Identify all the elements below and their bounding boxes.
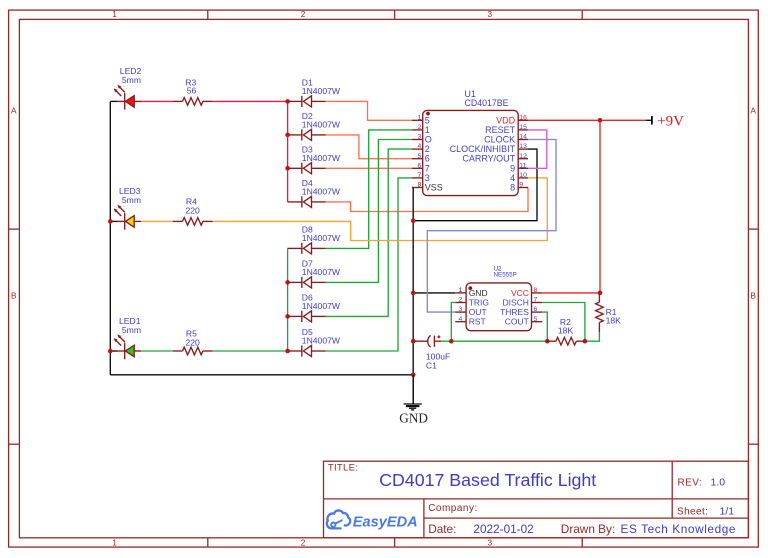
border row ticks left: [9, 229, 20, 444]
wire LED3 cathode to left rail: [110, 220, 117, 222]
wire LED1 cathode to left rail: [110, 350, 117, 352]
svg-text:1N4007W: 1N4007W: [302, 233, 341, 243]
U1 reference label: [465, 89, 509, 108]
resistor R2 18K: [546, 337, 586, 345]
svg-text:220: 220: [186, 337, 201, 347]
wire bottom green net TRIG to THRES junction: [451, 340, 547, 342]
C1 label: [426, 352, 450, 371]
svg-text:1/1: 1/1: [720, 505, 735, 517]
svg-text:1: 1: [112, 538, 117, 548]
EasyEDA logo: [327, 510, 418, 530]
svg-text:5: 5: [534, 316, 538, 323]
svg-text:Drawn By:: Drawn By:: [561, 522, 615, 536]
junction TRIG node: [449, 339, 454, 344]
LED LED3 yellow 5mm: [114, 205, 141, 230]
border column ticks bottom: [208, 538, 582, 547]
svg-text:A: A: [750, 106, 756, 116]
svg-text:4: 4: [418, 143, 422, 150]
junction bottom rail at trunk: [411, 373, 416, 378]
svg-text:VDD: VDD: [496, 115, 516, 125]
svg-text:6: 6: [534, 306, 538, 313]
svg-text:1: 1: [112, 9, 117, 19]
junction C1 left at trunk: [411, 339, 416, 344]
svg-text:12: 12: [519, 153, 527, 160]
svg-text:8: 8: [418, 182, 422, 189]
LED1 label: [119, 316, 141, 335]
svg-text:1N4007W: 1N4007W: [302, 86, 341, 96]
svg-text:5: 5: [418, 153, 422, 160]
svg-text:3: 3: [459, 306, 463, 313]
svg-text:RESET: RESET: [485, 125, 516, 135]
wire D7 anode to U1 pin3: [326, 140, 412, 283]
svg-text:3: 3: [425, 173, 430, 183]
svg-text:A: A: [11, 106, 17, 116]
svg-text:1N4007W: 1N4007W: [302, 153, 341, 163]
svg-text:DISCH: DISCH: [502, 298, 528, 308]
Date / Drawn By row: [428, 522, 736, 536]
junction D2 anode rail: [285, 133, 290, 138]
svg-text:B: B: [750, 290, 756, 300]
svg-text:TITLE:: TITLE:: [328, 462, 358, 473]
svg-text:THRES: THRES: [500, 307, 529, 317]
wire U2 DISCH down to R2 right: [542, 303, 585, 342]
D5 label: [302, 327, 341, 346]
wire U1 VSS to CLOCK-INHIBIT and ground trunk: [412, 149, 537, 221]
LED LED2 red 5mm: [114, 85, 141, 110]
svg-text:B: B: [11, 290, 17, 300]
svg-text:5mm: 5mm: [122, 195, 141, 205]
junction VCC node: [598, 291, 603, 296]
svg-text:2: 2: [301, 538, 306, 548]
junction D6 rail: [285, 314, 290, 319]
U1 pin numbers left: [418, 114, 422, 188]
junction D1 anode rail: [285, 99, 290, 104]
LED LED1 green 5mm: [114, 334, 141, 359]
Sheet label: [677, 505, 734, 517]
svg-text:7: 7: [418, 172, 422, 179]
svg-text:EasyEDA: EasyEDA: [353, 515, 418, 531]
svg-text:14: 14: [519, 134, 527, 141]
D3 label: [302, 145, 341, 164]
U2 reference label: [494, 266, 517, 279]
svg-text:1N4007W: 1N4007W: [302, 267, 341, 277]
junction THRES node: [545, 339, 550, 344]
junction D3 anode rail: [285, 166, 290, 171]
wire +9V rail vertical to U2 VCC: [599, 120, 601, 293]
border row ticks right: [748, 229, 758, 444]
svg-text:56: 56: [187, 86, 197, 96]
svg-text:6: 6: [425, 154, 430, 164]
diode D1 1N4007W: [288, 96, 326, 107]
R3 label: [185, 77, 196, 95]
svg-text:1N4007W: 1N4007W: [302, 336, 341, 346]
svg-text:5: 5: [425, 115, 430, 125]
svg-text:2: 2: [301, 9, 306, 19]
svg-text:3: 3: [418, 134, 422, 141]
svg-text:18K: 18K: [558, 326, 574, 336]
svg-text:8: 8: [510, 183, 515, 193]
svg-text:Date:: Date:: [428, 522, 456, 536]
wire U2 VCC to +9V rail: [542, 292, 600, 294]
U2 pin names left: [469, 288, 489, 327]
svg-text:ES Tech Knowledge: ES Tech Knowledge: [621, 522, 737, 536]
svg-text:1: 1: [459, 287, 463, 294]
wire R2 right to R1 bottom: [585, 332, 600, 341]
wire C1 right to TRIG junction: [442, 340, 452, 342]
wire LED3 to R4: [141, 220, 173, 222]
svg-text:2: 2: [459, 297, 463, 304]
junction D7 rail: [285, 280, 290, 285]
svg-text:13: 13: [519, 143, 527, 150]
wire D8 anode to U1 pin2: [326, 130, 412, 249]
wire VDD +9V rail: [518, 119, 646, 121]
wire bottom ground rail: [110, 374, 413, 376]
LED2 label: [120, 66, 142, 85]
svg-text:9: 9: [510, 163, 515, 173]
svg-text:CARRY/OUT: CARRY/OUT: [462, 154, 515, 164]
svg-text:VSS: VSS: [425, 183, 443, 193]
svg-text:+9V: +9V: [657, 114, 684, 130]
svg-text:CLOCK: CLOCK: [484, 135, 515, 145]
R4 label: [186, 197, 201, 216]
svg-text:O: O: [425, 135, 432, 145]
wire D4 anode to U1 pin9: [326, 188, 528, 212]
+9V supply terminal: [646, 116, 652, 124]
D4 label: [302, 178, 341, 197]
svg-text:220: 220: [186, 206, 201, 216]
D2 label: [302, 111, 341, 130]
svg-text:CD4017BE: CD4017BE: [465, 98, 509, 108]
svg-text:5mm: 5mm: [122, 325, 141, 335]
svg-text:6: 6: [418, 162, 422, 169]
svg-text:4: 4: [459, 316, 463, 323]
D7 label: [302, 259, 341, 278]
diode D2 1N4007W: [288, 129, 326, 140]
wire U2 GND to ground trunk: [413, 292, 455, 294]
svg-text:COUT: COUT: [505, 317, 529, 327]
svg-text:REV:: REV:: [678, 477, 703, 488]
svg-text:NE555P: NE555P: [494, 272, 517, 279]
junction +9V rail: [598, 118, 603, 123]
svg-text:C1: C1: [426, 360, 437, 370]
U1 pin names left: [425, 115, 443, 192]
wire green diode rail D8-D5: [287, 248, 289, 351]
svg-text:3: 3: [487, 538, 492, 548]
svg-text:1: 1: [418, 114, 422, 121]
svg-text:10: 10: [519, 172, 527, 179]
wire D3 anode to U1 pin6: [326, 167, 412, 169]
wire R5 to diode rail: [213, 350, 288, 352]
svg-text:15: 15: [519, 124, 527, 131]
resistor R3 56: [173, 98, 213, 106]
svg-text:TRIG: TRIG: [469, 298, 489, 308]
svg-text:11: 11: [519, 162, 526, 169]
wire LED2 to R3: [141, 100, 173, 102]
U1 pin numbers right: [519, 114, 527, 188]
svg-text:4: 4: [510, 173, 515, 183]
U2 pin names right: [500, 288, 529, 327]
junction VSS net at trunk: [411, 218, 416, 223]
resistor R4 220: [173, 218, 213, 226]
svg-text:2: 2: [418, 124, 422, 131]
svg-text:GND: GND: [469, 288, 488, 298]
R5 label: [186, 328, 201, 347]
junction LED3 cathode rail: [108, 219, 113, 224]
wire U2 TRIG to bottom green net: [451, 303, 455, 342]
wire ground trunk vertical: [412, 221, 414, 404]
svg-text:RST: RST: [469, 317, 486, 327]
U2 pin numbers right: [534, 287, 538, 323]
svg-text:1N4007W: 1N4007W: [302, 301, 341, 311]
svg-text:16: 16: [519, 114, 527, 121]
svg-text:1N4007W: 1N4007W: [302, 120, 341, 130]
svg-text:1: 1: [425, 125, 430, 135]
D8 label: [302, 225, 341, 244]
wire D1 anode to U1 pin1: [326, 101, 412, 120]
wire U2 THRES down: [542, 312, 547, 341]
REV label: [678, 476, 726, 488]
wire D6 anode to U1 pin4: [326, 149, 412, 316]
diode D3 1N4007W: [288, 163, 326, 174]
resistor R1 18K vertical: [598, 291, 600, 294]
diode D4 1N4007W: [288, 196, 326, 207]
svg-text:2022-01-02: 2022-01-02: [473, 522, 533, 536]
R2 label: [558, 317, 574, 336]
wire crimson diode rail D1-D4: [287, 101, 289, 201]
svg-text:9: 9: [519, 182, 523, 189]
svg-text:CD4017 Based Traffic Light: CD4017 Based Traffic Light: [379, 470, 596, 490]
wire D2 anode to U1 pin5: [326, 135, 412, 159]
border column ticks top: [208, 10, 582, 19]
svg-text:OUT: OUT: [469, 307, 487, 317]
LED3 label: [119, 186, 141, 205]
wire LED2 cathode to left rail: [110, 100, 117, 102]
ground symbol GND: [404, 375, 422, 410]
svg-text:Company:: Company:: [428, 503, 478, 514]
wire R3 to diode rail: [213, 100, 288, 102]
svg-text:CLOCK/INHIBIT: CLOCK/INHIBIT: [450, 144, 516, 154]
svg-text:1N4007W: 1N4007W: [302, 187, 341, 197]
resistor R5 220: [173, 347, 213, 355]
svg-text:GND: GND: [399, 410, 428, 425]
junction U2 GND at trunk: [411, 291, 416, 296]
D1 label: [302, 78, 341, 97]
svg-text:3: 3: [487, 9, 492, 19]
wire D5 anode to U1 pin7: [326, 178, 412, 351]
svg-text:2: 2: [425, 144, 430, 154]
svg-text:VCC: VCC: [511, 288, 529, 298]
junction D5 rail: [285, 349, 290, 354]
diode D7 1N4007W: [288, 277, 326, 288]
capacitor C1 100uF polarized: [413, 335, 441, 347]
svg-text:Sheet:: Sheet:: [677, 506, 708, 517]
svg-text:7: 7: [425, 163, 430, 173]
op-amp U2 NE555P body: [455, 283, 542, 331]
title block frame: [324, 461, 749, 538]
U2 pin numbers left: [459, 287, 463, 323]
diode D8 1N4007W: [288, 243, 326, 254]
op-amp U1 CD4017BE body: [412, 110, 528, 195]
D6 label: [302, 293, 341, 312]
diode D5 1N4007W: [288, 345, 326, 356]
U1 pin names right: [450, 115, 516, 192]
wire R4 to U1 pin10 orange net: [213, 178, 548, 241]
wire U1 RESET to pin11 magenta: [528, 130, 547, 168]
wire U1 CLOCK to U2 OUT blue: [427, 140, 556, 313]
junction DISCH R2 R1 node: [583, 339, 588, 344]
svg-text:7: 7: [534, 297, 538, 304]
junction LED1 cathode rail: [108, 349, 113, 354]
svg-text:8: 8: [534, 287, 538, 294]
svg-text:18K: 18K: [606, 315, 622, 325]
svg-text:5mm: 5mm: [122, 75, 141, 85]
R1 label: [606, 307, 622, 326]
diode D6 1N4007W: [288, 311, 326, 322]
wire left rail vertical: [109, 101, 111, 374]
svg-text:1.0: 1.0: [711, 476, 726, 488]
wire LED1 to R5: [141, 350, 173, 352]
